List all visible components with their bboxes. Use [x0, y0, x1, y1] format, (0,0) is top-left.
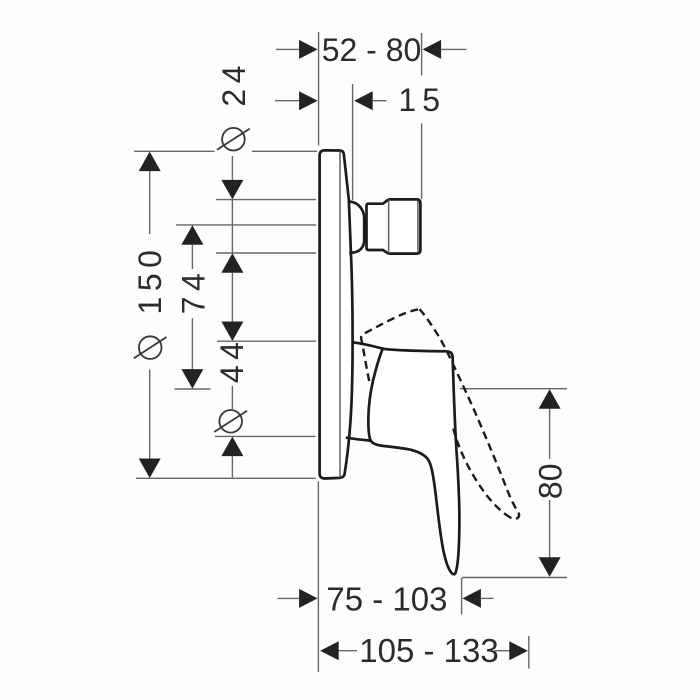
extension line: spout top horizontal	[216, 199, 316, 201]
escutcheon plate face rim line	[339, 152, 341, 478]
svg-text:52 - 80: 52 - 80	[322, 32, 422, 68]
dimension stack line below O44	[231, 456, 233, 477]
extension line: plate front face vertical (bottom)	[317, 482, 319, 673]
handle base bottom edge	[346, 438, 371, 441]
dimension 105 - 133 tail left	[338, 650, 357, 652]
wall gasket bump	[349, 202, 364, 253]
dimension 80 line lower	[549, 500, 551, 557]
dimension 80 line upper	[549, 409, 551, 459]
handle base top edge	[352, 342, 383, 349]
dimension 75 - 103 left arrow	[299, 589, 318, 608]
extension line: plate top horizontal left part	[134, 150, 215, 152]
dimension O150 top arrow	[139, 152, 161, 172]
svg-text:75 - 103: 75 - 103	[326, 580, 447, 617]
dimension O150 line lower	[149, 370, 151, 459]
dimension 80 top arrow	[539, 389, 561, 409]
dimension 74 line upper	[191, 245, 193, 269]
dimension stack line between O24 and 44	[231, 273, 233, 322]
lifted handle dashed inner edge	[453, 429, 510, 518]
dimension O44 diameter symbol	[214, 410, 247, 433]
dimension 52 - 80 left arrow	[299, 40, 318, 59]
spout connector end rim line	[417, 201, 419, 252]
spout connector small cylinder	[367, 200, 389, 254]
svg-text:150: 150	[132, 245, 168, 315]
extension line: handle base top horizontal	[217, 340, 316, 342]
spout section boundary line	[388, 201, 390, 253]
dimension O44 lower arrow	[221, 437, 243, 457]
extension line: handle base bottom horizontal	[215, 435, 316, 437]
extension line: spout bottom horizontal	[216, 252, 316, 254]
dimension 105 - 133 right arrow	[509, 641, 528, 660]
dimension 75 - 103 right arrow	[462, 589, 481, 608]
extension line: lifted handle tip vertical	[528, 636, 530, 669]
dimension 15 tail left	[275, 100, 301, 102]
handle lever body	[368, 349, 459, 575]
svg-text:105 - 133: 105 - 133	[359, 632, 498, 669]
escutcheon plate outline	[320, 150, 353, 478]
dimension 52 - 80 tail right	[441, 48, 467, 50]
dimension O24 leader upper	[231, 156, 233, 180]
extension line: plate back vertical	[352, 84, 354, 200]
dimension 15 right arrow	[354, 91, 373, 110]
dimension 15 left arrow	[299, 91, 318, 110]
extension line: lever tip vertical	[461, 578, 463, 615]
extension line: spout tip vertical (upper segment)	[421, 33, 423, 76]
dimension O150 line upper	[149, 171, 151, 234]
lifted handle dashed outer edge	[420, 309, 520, 519]
extension line: handle axis tick	[175, 388, 211, 390]
dimension stack line between 44 and symbol	[231, 386, 233, 409]
dimension 15 tail right	[372, 100, 386, 102]
dimension 80 bottom arrow	[539, 557, 561, 577]
dimension O24 upper arrow	[221, 180, 243, 200]
dimension 105 - 133 left arrow	[320, 641, 339, 660]
svg-text:44: 44	[214, 337, 250, 384]
dimension 52 - 80 tail left	[276, 48, 301, 50]
dimension O24 lower arrow	[221, 253, 243, 273]
dimension 52 - 80 right arrow	[423, 40, 442, 59]
extension line: plate front face vertical (top)	[318, 32, 320, 146]
dimension O150 bottom arrow	[139, 459, 161, 479]
extension line: spout tip vertical (lower segment)	[421, 124, 423, 200]
dimension 105 - 133 tail right	[495, 650, 510, 652]
dimension O24 diameter symbol	[217, 128, 250, 151]
extension line: spout axis horizontal	[176, 224, 316, 226]
extension line: lever tip horizontal to 80 dim	[462, 577, 567, 579]
extension line: plate bottom horizontal	[136, 477, 316, 479]
dimension O24 line across	[231, 199, 233, 253]
svg-text:15: 15	[398, 82, 446, 118]
dimension 74 bottom arrow	[181, 369, 203, 389]
dimension 75 - 103 tail left	[278, 597, 302, 599]
extension line: plate top horizontal right part	[252, 150, 317, 152]
extension line: handle axis horizontal right to 80 dim	[460, 388, 567, 390]
svg-text:80: 80	[532, 464, 568, 500]
dimension O44 upper arrow	[221, 322, 243, 342]
spout connector large cylinder	[388, 199, 420, 253]
dimension 74 top arrow	[181, 225, 203, 245]
svg-text:74: 74	[176, 268, 212, 315]
dimension 74 line lower	[191, 318, 193, 369]
dimension 75 - 103 tail right	[480, 597, 493, 599]
svg-text:24: 24	[216, 60, 252, 107]
lifted handle dashed top edge	[361, 309, 419, 381]
dimension O150 diameter symbol	[134, 336, 167, 359]
